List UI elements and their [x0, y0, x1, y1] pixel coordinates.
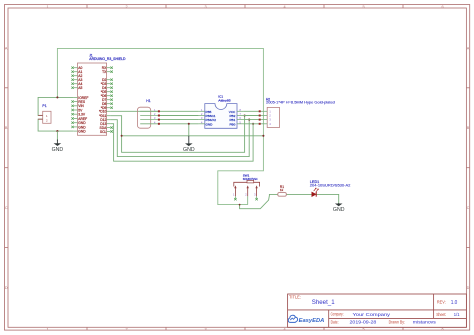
pin IC1 4 GND — [199, 120, 214, 126]
wire P1 pin2 to GND rail — [38, 119, 74, 131]
svg-text:6: 6 — [441, 328, 443, 332]
pin H2 1 — [259, 109, 272, 113]
junction node railA-top — [244, 114, 246, 116]
svg-text:GND: GND — [333, 207, 345, 213]
pin J1 left GND — [71, 121, 86, 125]
svg-text:204-10SURD/S530-A2: 204-10SURD/S530-A2 — [310, 184, 351, 188]
svg-text:2: 2 — [125, 328, 127, 332]
svg-text:5: 5 — [362, 5, 364, 9]
pin J1 left 3.3V — [71, 113, 85, 117]
wire PB1 to H2 pin3 — [243, 119, 260, 121]
pin J1 left 5V — [71, 108, 83, 112]
svg-text:Your Company: Your Company — [353, 312, 391, 318]
svg-text:A: A — [5, 46, 8, 50]
svg-text:6: 6 — [441, 5, 443, 9]
wire VCC to H2 pin1 — [243, 110, 260, 112]
pin IC1 6 PB1 — [229, 116, 243, 122]
pin J1 right SDA — [100, 126, 113, 130]
pin H1 4 — [140, 120, 160, 125]
ground GND3 — [333, 203, 345, 213]
svg-text:*D10: *D10 — [99, 110, 106, 114]
LED1 204-10SURD/S530-A2 — [310, 180, 351, 197]
pin J1 right D4 — [102, 86, 113, 90]
svg-text:3: 3 — [204, 5, 206, 9]
pin H1 1 — [140, 108, 160, 113]
pin J1 right *D3 — [101, 82, 113, 86]
pin IC1 1 PB5 — [199, 108, 212, 114]
pin J1 left GND — [74, 130, 86, 134]
svg-text:2019-09-28: 2019-09-28 — [350, 320, 377, 326]
svg-text:ARDUINO_R3_SHIELD: ARDUINO_R3_SHIELD — [89, 57, 126, 61]
svg-text:1: 1 — [46, 328, 48, 332]
pin SW1 1 arrow — [233, 185, 237, 196]
pin SW1 3 stub — [255, 196, 257, 200]
pin J1 left A3 — [71, 78, 82, 82]
pin J1 left GND — [71, 125, 86, 129]
pin J1 right *D6 — [101, 94, 113, 98]
junction node railB-top — [248, 119, 250, 121]
svg-text:2: 2 — [125, 5, 127, 9]
wire PB0 to H2 pin4 — [243, 123, 260, 125]
junction node P1-top — [56, 96, 58, 98]
pin J1 left A1 — [71, 70, 82, 74]
svg-text:4: 4 — [283, 5, 285, 9]
svg-text:D: D — [467, 286, 470, 290]
svg-text:PB0: PB0 — [229, 122, 235, 126]
svg-text:4: 4 — [283, 328, 285, 332]
svg-text:Sheet_1: Sheet_1 — [312, 300, 335, 306]
connector H2 2005-1x4P — [266, 97, 335, 127]
svg-text:GND: GND — [52, 147, 64, 153]
wire SW1 to R1 — [240, 194, 278, 208]
svg-text:Sheet:: Sheet: — [436, 312, 446, 317]
pin J1 right *D10 — [99, 110, 110, 114]
pin J1 left A0 — [71, 66, 82, 70]
pin IC1 8 VCC — [229, 108, 243, 114]
svg-text:EasyEDA: EasyEDA — [299, 318, 325, 324]
svg-text:3: 3 — [204, 328, 206, 332]
pin H2 2 — [259, 114, 272, 118]
pin P1 2 — [38, 118, 43, 120]
pin J1 right TX — [102, 70, 113, 74]
op-amp IC1 Attiny85 — [205, 95, 237, 129]
pin J1 right D12 — [100, 118, 110, 122]
svg-text:1k: 1k — [280, 188, 284, 192]
pin H2 3 — [259, 118, 272, 122]
pin J1 right D2 — [102, 78, 113, 82]
pin J1 right *D9 — [101, 106, 113, 110]
pin P1 1 — [38, 114, 43, 116]
pin J1 right D8 — [102, 102, 113, 106]
wire LED1 to GND3 — [316, 194, 338, 203]
wire bus row1 D10 to PB5 — [110, 110, 198, 112]
title block — [288, 294, 467, 327]
svg-text:SCL: SCL — [100, 130, 107, 134]
wire D11 drop to rail A — [110, 116, 244, 153]
svg-text:Drawn By:: Drawn By: — [389, 319, 406, 324]
pin J1 left A2 — [71, 74, 82, 78]
wire D12 drop to rail B — [110, 120, 249, 157]
svg-text:H1: H1 — [146, 99, 150, 103]
wire bus row3 pads to PB4 — [159, 119, 199, 121]
wire mid horizontal to loop — [122, 135, 264, 137]
pin J1 right D7 — [102, 98, 113, 102]
svg-text:B: B — [5, 126, 8, 130]
ground GND1 — [52, 140, 64, 154]
svg-text:Attiny85: Attiny85 — [218, 98, 231, 102]
svg-text:1: 1 — [46, 5, 48, 9]
wire R1 to LED1 — [286, 193, 311, 195]
svg-text:D: D — [5, 286, 8, 290]
ground GND2 — [183, 136, 195, 153]
wire bus row2 pads to PB3 — [159, 115, 199, 117]
connector H1 — [137, 99, 150, 128]
wire P1 pin1 to IOREF — [38, 97, 74, 115]
pin J1 right SCL — [100, 130, 113, 134]
pin SW1 3 arrow — [254, 185, 258, 196]
svg-text:A: A — [467, 46, 470, 50]
pin SW1 2 stub — [247, 196, 249, 204]
svg-text:Company:: Company: — [331, 312, 344, 317]
svg-text:REV:: REV: — [437, 300, 446, 305]
junction node loop-mid — [262, 135, 264, 137]
svg-text:C: C — [467, 206, 470, 210]
pin SW1 1 stub — [234, 196, 236, 200]
pin H1 2 — [140, 112, 160, 117]
pin IC1 3 PB4/X2 — [199, 116, 217, 122]
junction node gnd2 — [188, 123, 190, 125]
connector P1 — [42, 104, 51, 124]
pin J1 right *D11 — [99, 114, 110, 118]
pin J1 left RES — [71, 100, 85, 104]
svg-text:A5: A5 — [78, 86, 82, 90]
svg-text:mistanovs: mistanovs — [413, 319, 437, 325]
pin J1 right RX — [102, 66, 113, 70]
resistor R1 1k — [278, 185, 287, 196]
pin H2 4 — [259, 122, 272, 126]
EasyEDA logo — [288, 315, 324, 324]
pin J1 right D13 — [100, 122, 110, 126]
svg-text:TITLE:: TITLE: — [289, 294, 301, 299]
svg-text:GND: GND — [206, 122, 214, 126]
svg-text:GND: GND — [183, 147, 195, 153]
svg-text:Date:: Date: — [331, 320, 339, 325]
pin IC1 7 PB2 — [229, 112, 243, 118]
pin J1 left AREF — [71, 117, 87, 121]
svg-text:GND: GND — [78, 130, 86, 134]
wire GND big loop — [57, 48, 263, 204]
wire GND1 drop — [56, 131, 58, 141]
wire D13 drop to rail C — [110, 124, 253, 162]
pin SW1 2 arrow — [245, 185, 249, 196]
pin J1 left VIN — [71, 104, 84, 108]
wire bus row4 pads to GND pin — [159, 123, 199, 125]
pin J1 left IOREF — [74, 96, 89, 100]
switch SW1 SK12D07VG4 — [234, 173, 260, 186]
pin IC1 2 PB3/x1 — [199, 112, 216, 118]
pin J1 left A5 — [71, 86, 82, 90]
svg-text:1.0: 1.0 — [451, 300, 458, 306]
pin J1 right *D5 — [101, 90, 113, 94]
pin J1 left A4 — [71, 82, 82, 86]
svg-text:1/1: 1/1 — [454, 312, 460, 318]
svg-text:2005-1*4P H=8.5MM Hype Gold-pl: 2005-1*4P H=8.5MM Hype Gold-plated — [266, 100, 335, 104]
junction node railC-top — [252, 123, 254, 125]
pin IC1 5 PB0 — [229, 120, 243, 126]
junction node sw-tap — [239, 204, 241, 206]
junction node v1-mid — [121, 135, 123, 137]
svg-text:5: 5 — [362, 328, 364, 332]
wire PB2 to H2 pin2 — [243, 115, 260, 117]
svg-text:C: C — [5, 206, 8, 210]
svg-text:B: B — [467, 126, 470, 130]
svg-text:P1: P1 — [42, 104, 46, 108]
junction node P1-bottom — [56, 130, 58, 132]
connector J1 ARDUINO_R3_SHIELD — [78, 54, 127, 136]
wire GND2 drop — [188, 124, 190, 137]
pin H1 3 — [140, 116, 160, 121]
